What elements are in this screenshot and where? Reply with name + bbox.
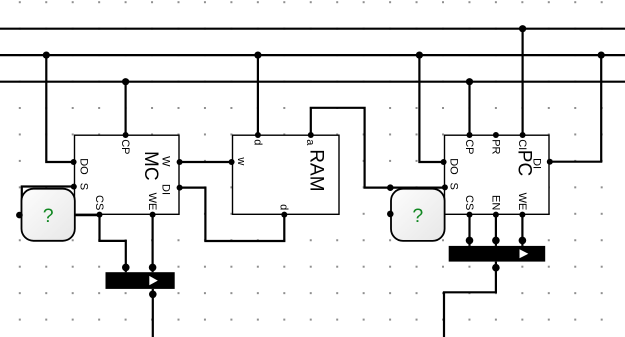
wire driver bar 1 output down <box>152 289 154 337</box>
wire unknown U1 to MC CS <box>20 214 99 216</box>
svg-text:CP: CP <box>463 139 475 154</box>
MC pin S <box>71 184 77 190</box>
PC pin PR <box>493 132 499 138</box>
svg-text:W: W <box>160 156 172 167</box>
wire PC WE to driver bar 2 <box>521 214 523 246</box>
wire MC WE to driver bar 1 <box>152 214 154 272</box>
PC pin DO <box>441 159 447 165</box>
unknown block U2 <box>387 184 445 241</box>
svg-text:DI: DI <box>160 184 172 195</box>
U2 pin left top <box>387 184 394 191</box>
MC pin WE <box>150 212 156 218</box>
MC pin CS <box>97 212 103 218</box>
wire MC S to unknown U1 <box>22 187 75 216</box>
wire PC CS to driver bar 2 <box>468 214 470 246</box>
PC pin WE <box>519 212 525 218</box>
PC pin EN <box>493 212 499 218</box>
register MC <box>71 132 183 218</box>
unknown block U1 <box>16 189 75 241</box>
svg-text:DO: DO <box>77 158 89 175</box>
RAM pin a <box>308 132 314 138</box>
wire bus line 2 <box>0 54 625 56</box>
D2 input pin 1 <box>466 237 474 245</box>
wire PC EN to driver bar 2 <box>495 214 497 246</box>
driver bar D1 <box>106 264 175 299</box>
junction bus2/PC DI wire <box>598 52 605 59</box>
svg-text:WE: WE <box>146 193 158 211</box>
counter PC <box>441 132 553 218</box>
svg-text:CS: CS <box>463 195 475 210</box>
svg-text:w: w <box>235 156 247 165</box>
wire MC CS to driver bar 1 <box>100 214 126 272</box>
svg-text:CI: CI <box>516 139 528 150</box>
memory RAM <box>229 132 339 218</box>
wire bus2 to MC DO <box>46 55 74 162</box>
PC pin DI <box>547 159 553 165</box>
MC pin W <box>177 159 183 165</box>
junction bus3/PC CP wire <box>466 78 473 85</box>
svg-text:S: S <box>77 183 89 190</box>
PC pin CP <box>467 132 473 138</box>
wire bus3 to MC CP <box>124 82 126 136</box>
svg-text:DO: DO <box>447 158 459 175</box>
MC pin DO <box>71 159 77 165</box>
D2 input pin 2 <box>492 237 500 245</box>
U1 pin left <box>16 212 23 219</box>
wire unknown U2 to PC S <box>390 187 446 189</box>
RAM pin w <box>229 159 235 165</box>
D1 input pin 1 <box>122 264 130 272</box>
wire bus line 1 <box>0 28 625 30</box>
wire bus2 to PC DO <box>419 55 446 162</box>
junction bus1/CI wire <box>519 25 526 32</box>
wire bus line 3 <box>0 81 625 83</box>
junction bus2/RAM d wire <box>254 52 261 59</box>
U2 pin left bottom <box>387 211 394 218</box>
svg-text:?: ? <box>412 205 423 227</box>
svg-text:MC: MC <box>140 151 161 181</box>
wire RAM a to unknown U2 <box>311 108 391 188</box>
svg-text:CS: CS <box>93 195 105 210</box>
wire RAM d out to MC DI <box>179 188 284 241</box>
PC pin CS <box>467 212 473 218</box>
D2 input pin 3 <box>519 237 527 245</box>
wire unknown U2 to PC CS <box>390 213 469 215</box>
D1 input pin 2 <box>149 264 157 272</box>
D1 output pin <box>149 291 157 299</box>
svg-text:EN: EN <box>489 195 501 210</box>
svg-text:WE: WE <box>516 193 528 211</box>
svg-text:PR: PR <box>489 139 501 154</box>
driver bar D2 <box>449 237 546 272</box>
junction bus2/DO wire <box>43 52 50 59</box>
svg-text:a: a <box>304 139 316 146</box>
junction bus3/CP wire <box>122 78 129 85</box>
wire MC W to RAM w <box>179 161 233 163</box>
wire bus1 to PC CI <box>521 29 523 136</box>
wire driver bar 2 output down-left <box>444 262 496 337</box>
PC pin S <box>442 184 448 190</box>
MC pin DI <box>177 185 183 191</box>
svg-text:DI: DI <box>531 158 543 169</box>
junction bus2/PC DO wire <box>416 52 423 59</box>
PC pin CI <box>520 132 526 138</box>
svg-text:CP: CP <box>119 139 131 154</box>
wire PC DI to bus2 <box>549 55 601 162</box>
svg-text:?: ? <box>43 205 54 227</box>
D2 output pin <box>492 264 500 272</box>
RAM pin d (top) <box>255 132 261 138</box>
wire bus3 to PC CP <box>468 82 470 136</box>
svg-text:S: S <box>447 183 459 190</box>
svg-text:d: d <box>278 204 290 210</box>
svg-text:d: d <box>251 139 263 145</box>
RAM pin d (bottom) <box>281 212 287 218</box>
MC pin CP <box>123 132 129 138</box>
svg-text:RAM: RAM <box>306 149 327 191</box>
wire bus2 to RAM d <box>257 55 259 135</box>
